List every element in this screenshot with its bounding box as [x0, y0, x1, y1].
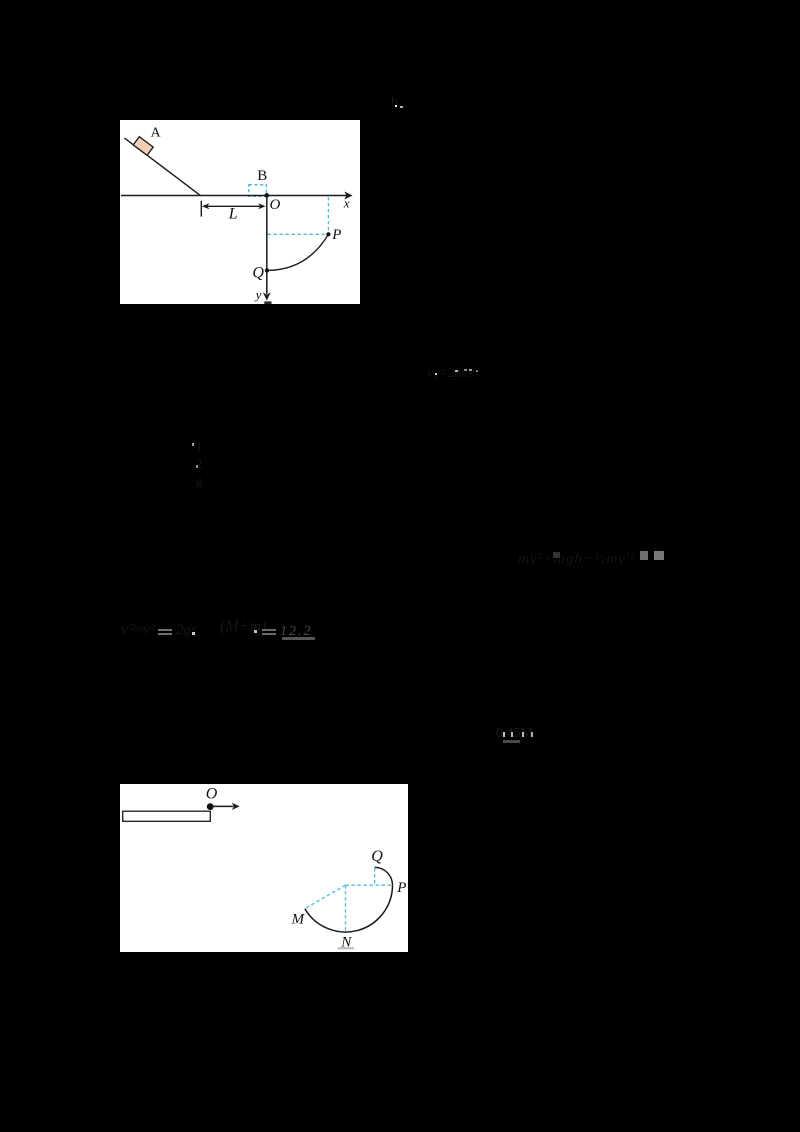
figure 2 panel (plank and circular track)	[120, 784, 408, 952]
svg-text:M: M	[291, 911, 306, 927]
faint fragment F3	[196, 438, 203, 489]
faint equals F5e	[262, 629, 276, 631]
white panel background	[120, 784, 408, 952]
y-axis	[266, 195, 268, 294]
faint speck F2b	[455, 370, 458, 372]
block A on incline	[133, 137, 153, 156]
L right arrowhead	[258, 203, 266, 209]
svg-text:P: P	[331, 227, 341, 243]
faint speck F6a	[503, 732, 505, 737]
faint speck F2a	[435, 373, 437, 375]
faint speck F5d	[254, 630, 257, 633]
faint speck F6c	[522, 732, 524, 737]
svg-text:x: x	[343, 196, 350, 211]
faint speck F3b	[196, 465, 198, 468]
faint fragment F5 part3	[220, 618, 266, 636]
faint speck F1a	[395, 105, 397, 107]
faint underline F5h	[282, 637, 315, 640]
svg-text:P: P	[396, 880, 406, 896]
faint speck F3a	[192, 443, 194, 446]
point Q dot	[265, 268, 269, 272]
small arc P-Q	[375, 867, 393, 885]
faint fragment F1	[391, 95, 402, 111]
dashed guide vertical to P	[327, 197, 329, 234]
faint speck F1b	[400, 106, 403, 108]
dashed guide horizontal to P	[268, 233, 329, 235]
faint strip F6e	[503, 740, 520, 743]
point P dot	[326, 232, 330, 236]
faint fragment F4	[518, 551, 636, 568]
dashed radius to P	[346, 884, 393, 886]
svg-text:L: L	[228, 206, 238, 223]
dashed radius to M	[305, 885, 346, 909]
velocity arrowhead	[232, 803, 240, 810]
x-axis arrowhead	[344, 192, 352, 200]
faint equals F5f	[262, 633, 276, 635]
L dimension tick	[200, 201, 202, 217]
svg-text:Q: Q	[371, 848, 383, 865]
svg-text:Q: Q	[252, 265, 264, 282]
faint block F4b	[640, 551, 648, 560]
N underline smudge	[338, 947, 355, 949]
launch point dot O	[207, 803, 214, 810]
y-axis arrowhead	[263, 292, 271, 300]
faint speck F2e	[476, 370, 478, 372]
trajectory curve Q to P	[267, 234, 328, 270]
faint block F4c	[654, 551, 664, 560]
faint speck F6d	[531, 732, 533, 737]
faint fragment F6	[496, 726, 533, 742]
dashed square block B	[249, 185, 266, 196]
faint speck F2c	[464, 369, 467, 371]
svg-text:O: O	[206, 786, 218, 803]
circular track arc M-N-P	[305, 885, 393, 932]
faint speck F6b	[511, 732, 513, 737]
L dimension arrow line	[204, 205, 264, 207]
faint equals F5b	[158, 633, 172, 635]
svg-text:O: O	[269, 197, 280, 213]
white panel background	[120, 120, 360, 304]
dashed drop from Q	[374, 868, 376, 885]
faint speck F2d	[469, 369, 472, 371]
faint fragment F5 part1	[121, 622, 155, 639]
incline surface	[124, 138, 200, 196]
faint fragment F2	[427, 366, 474, 382]
faint block F4a	[553, 552, 560, 558]
faint digits F5g	[280, 624, 313, 640]
svg-text:y: y	[254, 287, 262, 302]
velocity arrow	[212, 805, 234, 807]
faint speck F5c	[192, 632, 195, 635]
svg-text:B: B	[257, 168, 267, 184]
ground line / x-axis	[121, 195, 348, 197]
figure 1 panel (projectile from incline)	[120, 120, 360, 304]
clipped smudge at panel bottom	[264, 301, 271, 304]
faint fragment F5 part2	[176, 622, 197, 639]
faint equals F5a	[158, 629, 172, 631]
dashed radius to N	[345, 885, 347, 932]
svg-text:A: A	[150, 126, 161, 141]
origin dot O	[265, 193, 270, 198]
plank rectangle	[123, 811, 211, 821]
L left arrowhead	[202, 203, 210, 209]
